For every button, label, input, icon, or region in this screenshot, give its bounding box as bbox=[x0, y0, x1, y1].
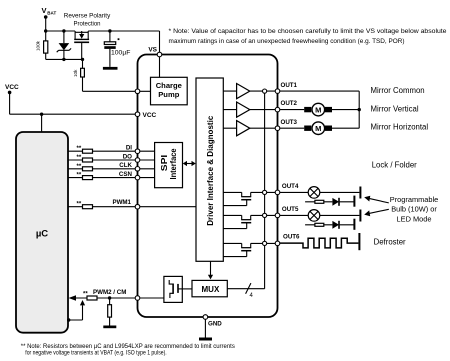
svg-text:VCC: VCC bbox=[5, 84, 19, 91]
svg-text:SPI: SPI bbox=[160, 155, 169, 172]
svg-text:VCC: VCC bbox=[143, 112, 157, 119]
svg-text:DI: DI bbox=[126, 145, 132, 152]
svg-text:100k: 100k bbox=[36, 40, 41, 51]
svg-text:GND: GND bbox=[208, 321, 222, 328]
svg-text:Interface: Interface bbox=[169, 148, 178, 180]
svg-text:Lock / Folder: Lock / Folder bbox=[372, 161, 417, 170]
svg-text:Mirror Horizontal: Mirror Horizontal bbox=[371, 123, 429, 132]
svg-text:OUT2: OUT2 bbox=[281, 100, 298, 107]
svg-text:10k: 10k bbox=[73, 69, 78, 77]
svg-text:**: ** bbox=[77, 173, 82, 179]
svg-text:CLK: CLK bbox=[119, 162, 132, 169]
svg-text:100µF: 100µF bbox=[111, 50, 130, 57]
svg-text:M: M bbox=[315, 105, 321, 114]
svg-text:PWM1: PWM1 bbox=[112, 199, 131, 206]
svg-text:Protection: Protection bbox=[74, 21, 101, 28]
svg-text:Mirror Vertical: Mirror Vertical bbox=[371, 104, 419, 113]
svg-text:**: ** bbox=[77, 155, 82, 161]
svg-text:OUT3: OUT3 bbox=[281, 119, 298, 126]
svg-text:OUT6: OUT6 bbox=[283, 233, 300, 240]
svg-text:Bulb (10W) or: Bulb (10W) or bbox=[391, 205, 437, 214]
svg-text:Pump: Pump bbox=[158, 90, 179, 99]
svg-text:VS: VS bbox=[148, 47, 157, 54]
svg-text:**: ** bbox=[77, 164, 82, 170]
svg-text:**: ** bbox=[83, 292, 88, 298]
svg-text:MUX: MUX bbox=[202, 285, 220, 294]
svg-text:Mirror Common: Mirror Common bbox=[371, 86, 425, 95]
svg-text:**: ** bbox=[77, 146, 82, 152]
svg-text:Programmable: Programmable bbox=[390, 195, 438, 204]
svg-text:OUT1: OUT1 bbox=[281, 82, 298, 89]
svg-text:µC: µC bbox=[36, 229, 48, 240]
svg-text:Reverse Polarity: Reverse Polarity bbox=[64, 13, 111, 20]
svg-text:V: V bbox=[42, 6, 47, 15]
svg-text:DO: DO bbox=[123, 153, 132, 160]
svg-text:OUT5: OUT5 bbox=[282, 206, 299, 213]
svg-text:LED Mode: LED Mode bbox=[397, 214, 432, 223]
svg-text:maximum ratings in case of an: maximum ratings in case of an unexpected… bbox=[169, 38, 405, 45]
svg-text:Charge: Charge bbox=[156, 81, 182, 90]
svg-text:BAT: BAT bbox=[47, 11, 56, 16]
svg-text:M: M bbox=[315, 124, 321, 133]
svg-text:CSN: CSN bbox=[119, 171, 133, 178]
svg-text:OUT4: OUT4 bbox=[282, 183, 299, 190]
svg-text:for negative voltage transient: for negative voltage transients at VBAT … bbox=[25, 350, 167, 357]
svg-text:* Note: Value of capacitor has: * Note: Value of capacitor has to be cho… bbox=[169, 28, 447, 35]
svg-text:**: ** bbox=[77, 202, 82, 208]
svg-text:Driver Interface & Diagnostic: Driver Interface & Diagnostic bbox=[206, 115, 215, 226]
svg-text:PWM2 / CM: PWM2 / CM bbox=[93, 289, 126, 296]
svg-text:Defroster: Defroster bbox=[374, 237, 406, 246]
